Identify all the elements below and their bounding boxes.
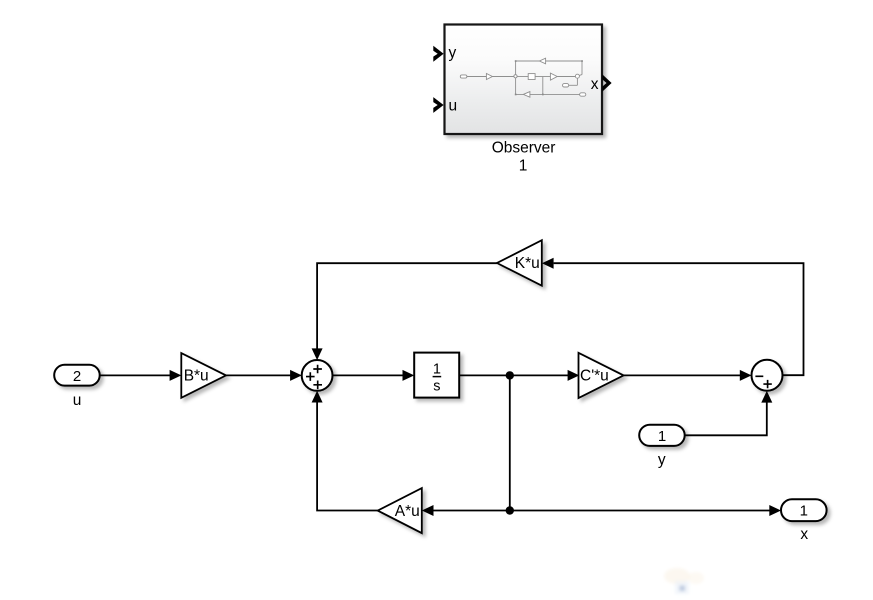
- svg-text:1: 1: [433, 361, 441, 377]
- junction node on main line: [506, 371, 514, 379]
- wire junction down to lower feedback: [509, 375, 511, 510]
- svg-text:1: 1: [658, 428, 666, 445]
- inport u (2): [54, 365, 99, 386]
- svg-text:Observer: Observer: [492, 139, 556, 156]
- wire junction to A*u: [422, 505, 510, 516]
- wire inport y to sum2 bottom: [685, 391, 773, 435]
- wire A*u to sum1 bottom: [312, 391, 378, 511]
- svg-text:1: 1: [800, 503, 808, 520]
- port chevron u: [433, 97, 443, 113]
- svg-text:x: x: [800, 526, 808, 543]
- mini diagram inside Observer: [460, 58, 586, 97]
- wire sum1 to integrator: [333, 370, 415, 381]
- junction node on lower line: [506, 506, 514, 514]
- svg-text:x: x: [591, 76, 599, 93]
- wire C'*u to sum2: [624, 370, 752, 381]
- svg-text:u: u: [449, 98, 458, 115]
- wire integrator to C'*u: [459, 370, 579, 381]
- svg-text:K*u: K*u: [515, 255, 540, 272]
- inport y (1): [639, 425, 685, 446]
- port chevron y: [433, 46, 443, 62]
- port chevron x: [602, 74, 611, 92]
- integrator 1/s: [414, 353, 459, 398]
- svg-text:B*u: B*u: [184, 367, 209, 384]
- svg-text:A*u: A*u: [395, 503, 420, 520]
- wire K*u to sum1 top: [312, 263, 497, 360]
- outport x (1): [781, 499, 827, 521]
- svg-text:2: 2: [73, 368, 81, 385]
- svg-text:y: y: [449, 45, 457, 62]
- svg-text:s: s: [433, 379, 440, 395]
- sum1: [302, 360, 333, 391]
- svg-text:y: y: [658, 452, 666, 469]
- svg-text:u: u: [73, 392, 82, 409]
- subsystem Observer: [433, 25, 611, 135]
- svg-text:1: 1: [519, 157, 528, 174]
- svg-text:C'*u: C'*u: [580, 367, 609, 384]
- gain C'*u: [579, 353, 624, 398]
- sum2: [752, 360, 783, 391]
- faint artifact bottom right: [664, 568, 704, 594]
- gain A*u: [378, 488, 422, 533]
- wire junction to outport x: [510, 505, 781, 516]
- wire sum2 to K*u (feedback top): [542, 258, 804, 376]
- wire u to B*u: [100, 370, 182, 381]
- wire B*u to sum1: [226, 370, 302, 381]
- gain B*u: [181, 353, 226, 398]
- gain K*u: [497, 240, 542, 286]
